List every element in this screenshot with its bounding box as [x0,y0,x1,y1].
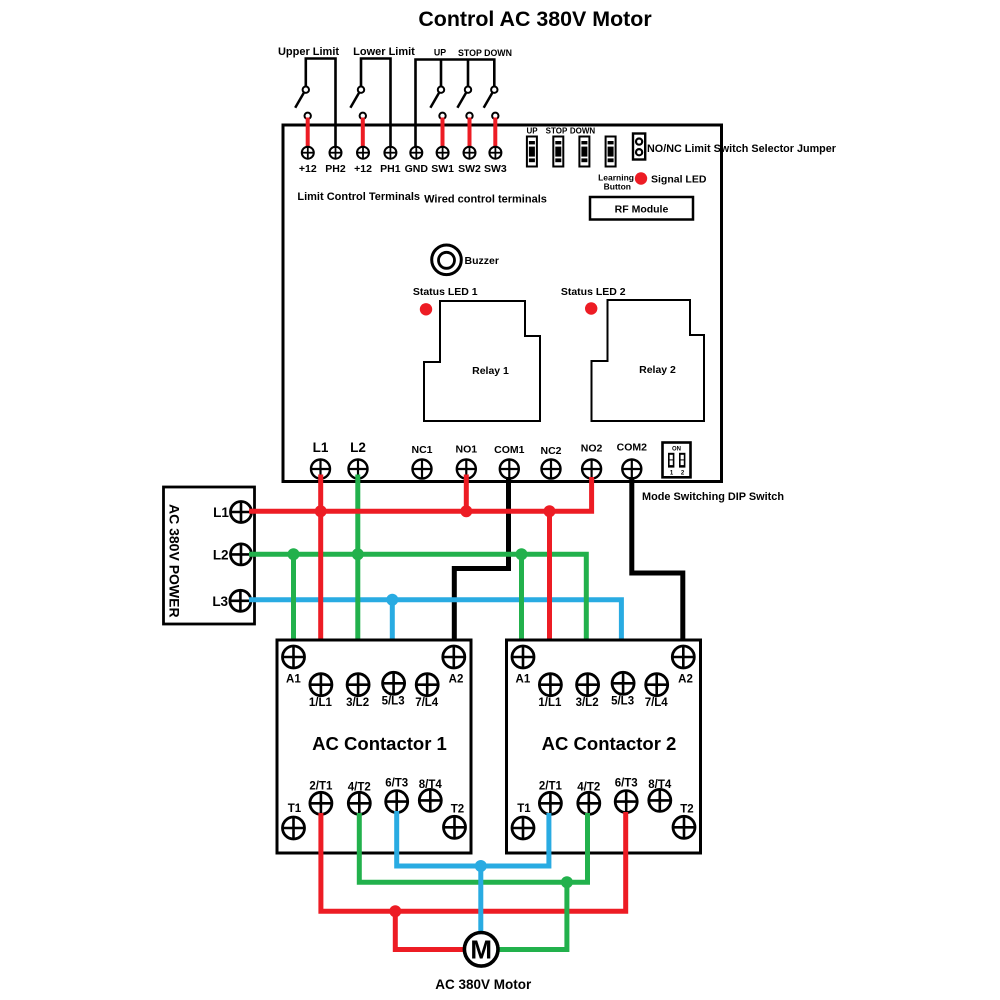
svg-text:2/T1: 2/T1 [309,780,333,792]
svg-text:Buzzer: Buzzer [465,255,499,267]
terminal 8/T4 contactor2 [648,779,672,812]
switch UP pivot [430,87,444,108]
switch Lower Limit pivot [350,87,364,108]
svg-text:7/L4: 7/L4 [645,697,669,709]
terminal 1/L1 contactor2 [538,674,562,709]
svg-text:COM2: COM2 [617,442,647,454]
terminal T2 contactor1 [444,804,466,839]
terminal 3/L2 contactor2 [576,674,599,709]
wire 2/T1 contactor1 to 6/T3 contactor2 red [321,812,626,911]
svg-text:PH2: PH2 [325,163,346,175]
wire red to motor [395,911,463,949]
junction L2 A1c1 green [288,548,300,560]
terminal A1 contactor1 [283,646,305,686]
terminal 1/L1 contactor1 [309,674,333,709]
terminal COM1 [494,444,524,479]
contactor AC Contactor 2 [507,640,701,853]
terminal T1 contactor2 [512,803,534,839]
svg-text:UP: UP [434,48,446,58]
svg-text:A2: A2 [449,674,464,686]
junction L1 1L1c2 red [544,505,556,517]
terminal 7/L4 contactor1 [415,674,439,709]
svg-text:Relay 1: Relay 1 [472,365,509,377]
svg-text:Limit Control Terminals: Limit Control Terminals [297,191,420,203]
slide switch SS4 [606,137,616,167]
svg-text:Wired control terminals: Wired control terminals [424,194,547,206]
junction L1 1L1c1 red [315,505,327,517]
label Lower Limit [353,46,415,58]
terminal A1 contactor2 [512,646,534,686]
switch STOP contact [466,113,472,119]
terminal L1 [311,440,330,479]
slide switch SS2 [553,137,563,167]
wire blue to motor [478,866,483,932]
title label [418,7,651,31]
label Status LED 1 [413,286,478,298]
wire COM1 to A2 contactor1 black [454,477,508,647]
terminal NO1 [456,444,478,479]
svg-text:4/T2: 4/T2 [577,782,600,794]
terminal SW1 [431,147,454,175]
svg-text:PH1: PH1 [380,163,401,175]
terminal 6/T3 contactor1 [385,777,408,812]
label STOP slide [546,127,568,136]
wire 5/L3 contactor1 blue [390,600,395,673]
svg-text:3/L2: 3/L2 [576,697,599,709]
switch Upper Limit contact [305,113,311,119]
terminal 2/T1 contactor1 [309,780,333,814]
relay K1 [424,301,540,421]
svg-text:Lower Limit: Lower Limit [353,46,415,58]
svg-text:8/T4: 8/T4 [648,779,672,791]
svg-text:T2: T2 [451,804,464,816]
switch DOWN pivot [484,87,498,108]
slide switch SS1 [527,137,537,167]
terminal 8/T4 contactor1 [419,779,443,812]
DIP switch mode SW-DIP [663,443,691,478]
wire 4/T2 contactor1 to 4/T2 contactor2 green [359,813,587,882]
svg-text:1/L1: 1/L1 [538,697,562,709]
terminal L1 power [213,502,251,523]
jumper NO/NC selector J1 [633,134,645,160]
svg-text:L2: L2 [213,547,229,562]
junction red motor [389,905,401,917]
terminal 5/L3 contactor2 [611,672,634,707]
terminal SW2 [458,147,481,175]
junction L1 NO1 red [460,505,472,517]
svg-text:AC Contactor 2: AC Contactor 2 [542,733,677,754]
terminal SW3 [484,147,507,175]
svg-text:NC1: NC1 [411,444,432,456]
wire UP/STOP/DOWN harness [416,60,495,147]
svg-text:+12: +12 [299,163,317,175]
svg-text:GND: GND [405,163,429,175]
junction L2 3L2c1 green [352,548,364,560]
terminal GND [405,147,429,175]
svg-text:A1: A1 [516,674,531,686]
terminal L2 power [213,544,252,565]
svg-text:STOP DOWN: STOP DOWN [458,48,512,58]
label Status LED 2 [561,286,626,298]
svg-text:COM1: COM1 [494,444,524,456]
terminal A2 contactor2 [672,646,694,686]
svg-text:NO/NC Limit Switch Selector Ju: NO/NC Limit Switch Selector Jumper [647,143,837,155]
svg-text:T1: T1 [288,803,302,815]
wire green to motor [499,882,567,949]
label UP slide [526,127,538,136]
terminal NC2 [540,445,561,479]
label DOWN slide [570,127,596,136]
svg-text:UP: UP [526,127,538,136]
junction L3 blue [386,594,398,606]
svg-text:L3: L3 [212,594,228,609]
svg-text:5/L3: 5/L3 [382,696,405,708]
label Wired control terminals [424,194,547,206]
terminal +12 [354,147,372,175]
wire L3 blue horizontal [249,600,621,673]
svg-text:AC 380V POWER: AC 380V POWER [167,504,183,618]
wire 1/L1 contactor2 red [547,511,552,674]
switch DOWN contact [492,113,498,119]
terminal T2 contactor2 [673,804,695,839]
svg-text:NC2: NC2 [540,445,561,457]
wire A1 contactor2 green [519,554,524,647]
buzzer BZ1 [432,245,462,275]
junction L2 A1c2 green [516,548,528,560]
svg-text:7/L4: 7/L4 [415,697,439,709]
svg-text:ON: ON [672,447,681,453]
svg-text:Status LED 1: Status LED 1 [413,286,478,298]
switch UP contact [439,113,445,119]
terminal PH1 [380,147,401,175]
svg-text:NO2: NO2 [581,443,603,455]
junction green motor [561,876,573,888]
terminal T1 contactor1 [283,803,305,839]
label Signal LED [651,174,707,186]
svg-text:DOWN: DOWN [570,127,596,136]
terminal 2/T1 contactor2 [539,780,563,814]
wire L2 green horizontal [249,554,586,674]
terminal NC1 [411,444,432,479]
label AC 380V Motor [435,977,532,992]
svg-text:M: M [470,935,492,965]
svg-text:8/T4: 8/T4 [419,779,443,791]
motor M1 [464,933,498,967]
svg-text:4/T2: 4/T2 [348,782,371,794]
svg-text:T2: T2 [680,804,693,816]
terminal COM2 [617,442,647,479]
switch Upper Limit pivot [295,87,309,108]
svg-text:AC Contactor 1: AC Contactor 1 [312,733,447,754]
terminal L3 power [212,590,251,611]
wire red stub +12a [306,120,310,147]
terminal 4/T2 contactor1 [348,782,371,815]
svg-text:AC 380V Motor: AC 380V Motor [435,977,532,992]
svg-text:6/T3: 6/T3 [385,777,408,789]
terminal +12 [299,147,317,175]
svg-text:STOP: STOP [546,127,568,136]
svg-text:3/L2: 3/L2 [346,697,369,709]
terminal 3/L2 contactor1 [346,674,369,709]
wire L1 receiver to 1/L1 contactor1 red [318,477,323,674]
svg-text:SW3: SW3 [484,163,507,175]
LED signal [635,172,647,184]
label NO/NC Limit Switch Selector Jumper [647,143,837,155]
receiver control board [283,125,722,482]
svg-text:2/T1: 2/T1 [539,780,563,792]
label Learning Button [598,173,634,192]
LED status 1 [420,303,432,315]
relay K2 [592,300,705,421]
label Limit Control Terminals [297,191,420,203]
wire Upper Limit harness [306,59,336,147]
wire L2 receiver to 3/L2 contactor1 green [355,477,360,674]
wire L1 red horizontal [249,477,592,511]
wire red stub SW2 [468,120,472,147]
switch Lower Limit contact [360,113,366,119]
slide switch SS3 [579,137,589,167]
svg-text:Control AC 380V Motor: Control AC 380V Motor [418,7,651,31]
svg-text:Signal LED: Signal LED [651,174,707,186]
label Buzzer [465,255,499,267]
terminal L2 [349,440,368,479]
terminal A2 contactor1 [443,646,465,686]
label Upper Limit [278,46,339,58]
svg-text:+12: +12 [354,163,372,175]
wire red stub SW3 [493,120,497,147]
label UP [434,48,446,58]
switch STOP pivot [457,87,471,108]
power source AC 380V POWER [164,487,255,624]
svg-text:Relay 2: Relay 2 [639,364,676,376]
svg-text:L2: L2 [350,440,366,455]
svg-text:Mode Switching DIP Switch: Mode Switching DIP Switch [642,491,784,503]
svg-text:SW1: SW1 [431,163,454,175]
svg-text:Status LED 2: Status LED 2 [561,286,626,298]
svg-text:L1: L1 [313,440,329,455]
svg-text:RF Module: RF Module [615,204,669,216]
LED status 2 [585,302,597,314]
RF module U2 [590,197,693,220]
svg-text:A1: A1 [286,674,301,686]
terminal 4/T2 contactor2 [577,782,600,815]
label STOP DOWN [458,48,512,58]
svg-text:Button: Button [604,182,631,192]
svg-text:A2: A2 [678,674,693,686]
wire red stub +12b [361,120,365,147]
svg-text:Upper Limit: Upper Limit [278,46,339,58]
wire Lower Limit harness [361,59,391,147]
terminal 6/T3 contactor2 [615,777,638,812]
svg-text:5/L3: 5/L3 [611,696,634,708]
terminal NO2 [581,443,603,479]
label Mode Switching DIP Switch [642,491,784,503]
wire A1 contactor1 green [291,554,296,647]
contactor AC Contactor 1 [277,640,471,853]
svg-text:L1: L1 [213,505,229,520]
junction blue motor [475,860,487,872]
svg-text:NO1: NO1 [456,444,478,456]
wire red stub SW1 [441,120,445,147]
terminal 5/L3 contactor1 [382,672,405,707]
svg-text:1/L1: 1/L1 [309,697,333,709]
terminal 7/L4 contactor2 [645,674,669,709]
wire 6/T3 contactor1 to 2/T1 contactor2 blue [397,811,549,866]
svg-text:T1: T1 [517,803,531,815]
wire NO1 stub red [464,477,469,511]
wire COM2 to A2 contactor2 black [632,477,683,647]
svg-text:6/T3: 6/T3 [615,777,638,789]
terminal PH2 [325,147,346,175]
svg-text:SW2: SW2 [458,163,481,175]
